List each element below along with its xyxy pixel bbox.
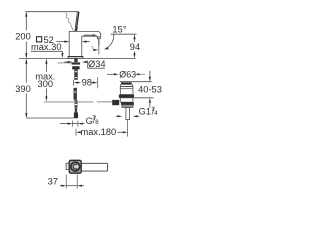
deck line <box>19 57 72 59</box>
drain nut band <box>119 95 134 98</box>
dim 52 arrow right <box>87 41 90 43</box>
svg-text:300: 300 <box>38 79 54 89</box>
arrow up at deck (max300 top) <box>45 59 47 64</box>
svg-text:390: 390 <box>15 84 31 94</box>
top view: body square <box>69 160 81 173</box>
svg-text:Ø63: Ø63 <box>119 69 136 79</box>
svg-text:4: 4 <box>154 111 158 117</box>
dim 98 <box>73 80 75 86</box>
svg-text:94: 94 <box>130 42 140 52</box>
flange top ext line <box>120 81 152 83</box>
drain tailpipe <box>126 107 130 119</box>
washer <box>72 62 81 64</box>
aerator <box>97 37 100 39</box>
svg-text:max.30: max.30 <box>31 42 62 52</box>
water stream <box>98 39 100 55</box>
label square-52 symbol <box>37 37 42 42</box>
G3/8 nut <box>74 112 78 118</box>
dim G3/8 <box>60 123 68 125</box>
svg-text:max.180: max.180 <box>81 127 117 137</box>
svg-text:15°: 15° <box>112 24 126 34</box>
drain centerline <box>127 120 129 137</box>
top view: cartridge circle <box>71 162 80 171</box>
svg-text:8: 8 <box>95 120 99 126</box>
dim O34 arrows <box>64 61 67 63</box>
rod connection nut <box>112 100 119 105</box>
supply hose lower <box>74 88 77 100</box>
dim G1-1/4 arrows <box>116 115 118 117</box>
svg-text:G1: G1 <box>139 106 151 116</box>
leader max.30 down to deck <box>61 51 63 53</box>
svg-text:200: 200 <box>15 32 31 42</box>
top view: left tab <box>66 163 69 169</box>
svg-text:Ø34: Ø34 <box>88 59 106 69</box>
mounting nut <box>72 66 79 69</box>
hose lower part <box>75 100 78 108</box>
dim 37 <box>65 175 67 189</box>
dim O63 <box>107 73 114 75</box>
flow arrow inside spout <box>84 34 94 36</box>
escutcheon base <box>68 57 83 59</box>
15deg arc <box>106 34 114 48</box>
dim 40-53 <box>149 71 151 77</box>
arrow down at hose end (390 bottom) <box>25 113 27 118</box>
dim 94 vertical <box>134 39 136 42</box>
arrow up below deck (390 top) <box>25 59 27 64</box>
supply hose upper <box>74 69 77 79</box>
svg-text:98: 98 <box>82 77 92 87</box>
dimension line max.300 vertical <box>45 63 47 72</box>
ext line deck-bottom level <box>134 97 154 99</box>
svg-text:40-53: 40-53 <box>138 84 162 94</box>
arrow down at rod (max300 bottom) <box>45 96 47 101</box>
drain washer <box>122 105 133 107</box>
pop-up rod line <box>44 101 94 103</box>
svg-text:37: 37 <box>48 176 58 186</box>
G3/8 hose neck <box>75 108 77 112</box>
drain body upper <box>120 87 133 95</box>
top view: inner C ring <box>73 164 77 169</box>
deck bottom short line <box>58 62 73 64</box>
dim max.180 <box>76 131 81 133</box>
drain body mid <box>120 98 133 102</box>
drain dark band 2 <box>121 102 134 105</box>
handle break zigzag <box>66 13 74 31</box>
dimension line 200/390 vertical <box>25 13 27 31</box>
arrow up at y11.7 <box>25 12 27 17</box>
faucet body outline <box>69 31 101 56</box>
hose end level line <box>26 117 74 119</box>
top view: spout <box>81 163 107 171</box>
arrow down at deck (200 bottom) <box>25 53 27 58</box>
handle lever edges <box>76 12 79 32</box>
shank below deck <box>74 58 78 62</box>
drain flange <box>121 82 132 84</box>
left spray arrowhead <box>92 46 94 50</box>
dim 52 arrow left <box>57 41 65 43</box>
extension line handle-top level <box>25 11 79 13</box>
